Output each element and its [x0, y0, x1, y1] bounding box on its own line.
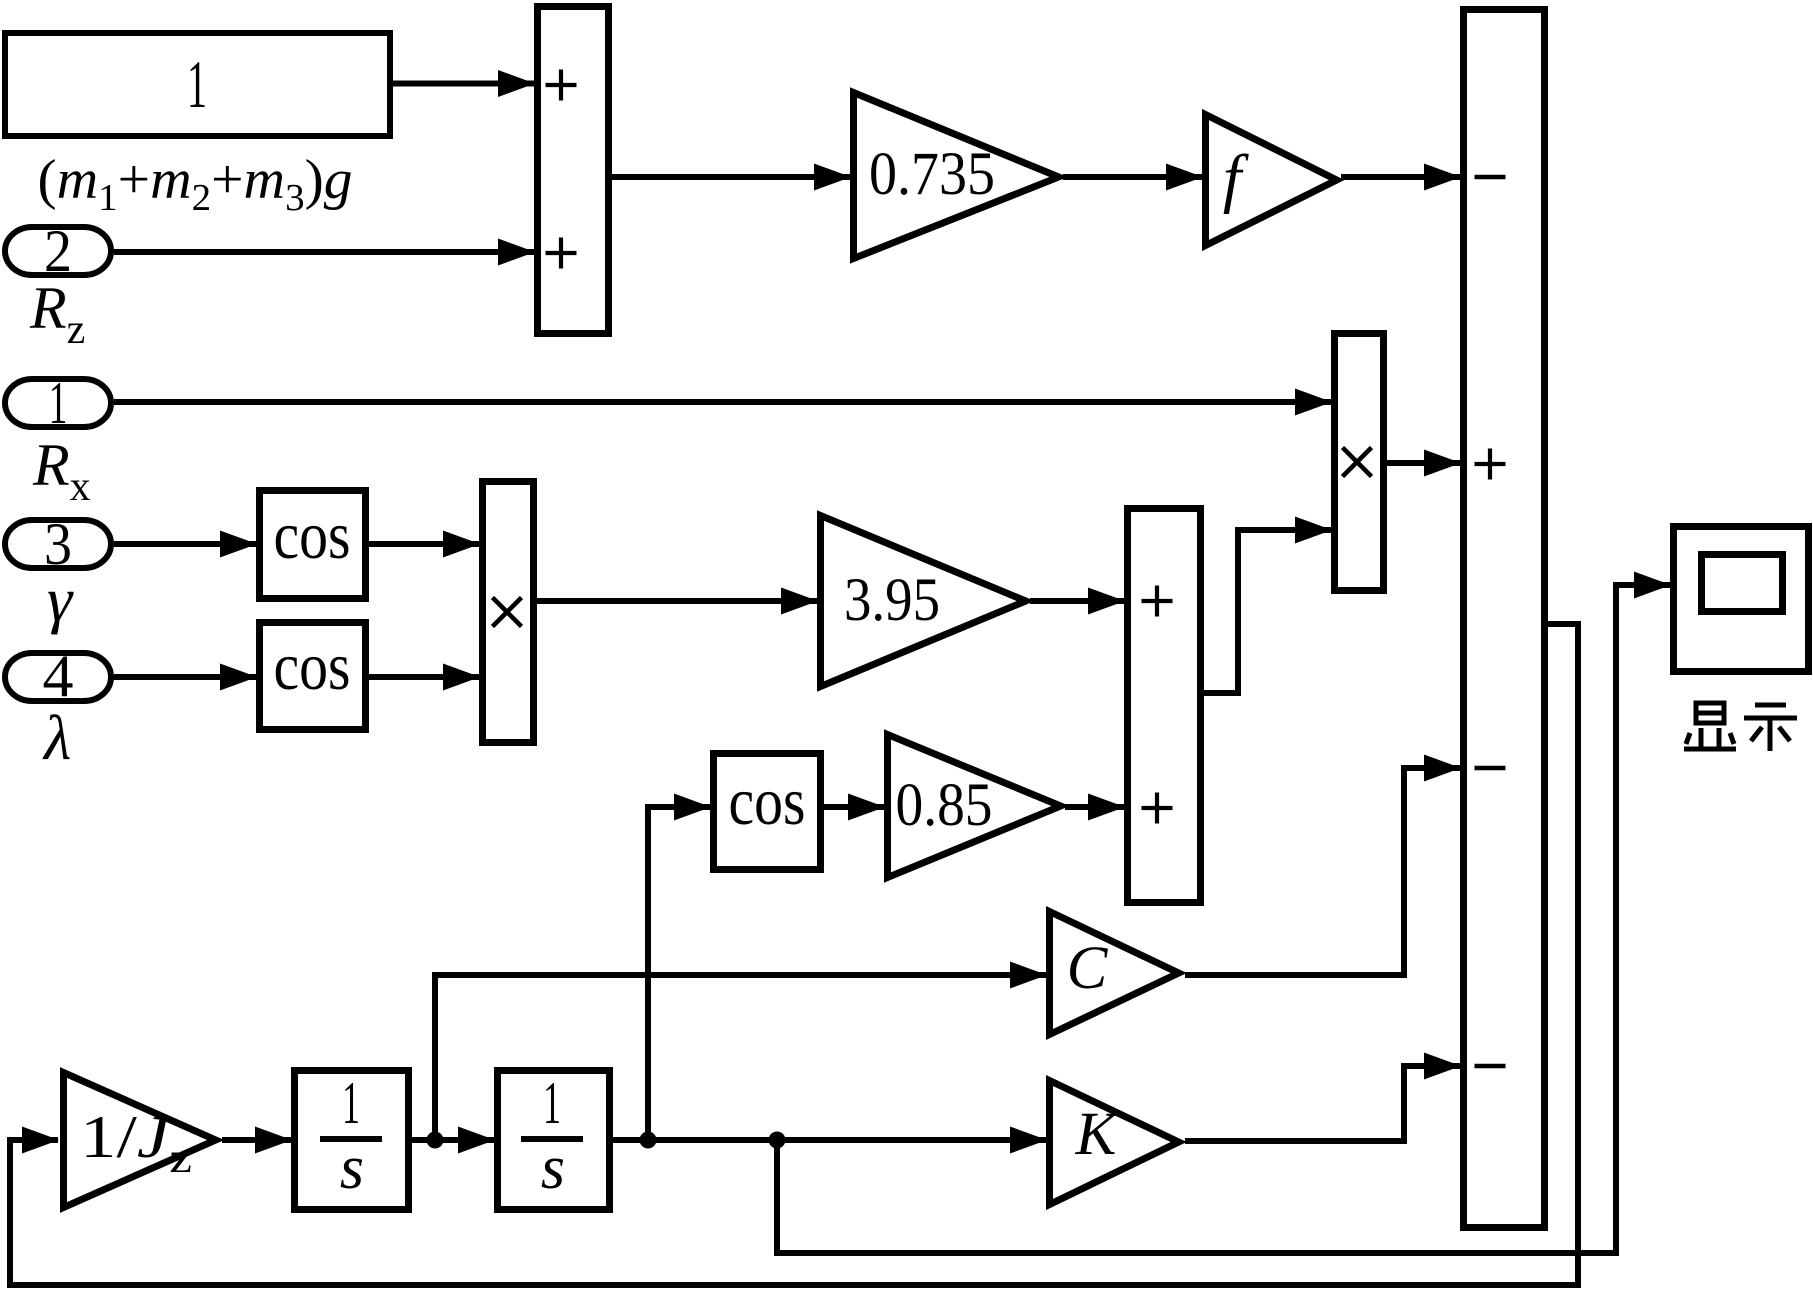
wire 0.85 to S3 plus2	[1065, 804, 1124, 810]
gain f	[1206, 115, 1337, 246]
wire P1 to gain 3.95	[537, 598, 817, 604]
junction after integrator2	[640, 1132, 657, 1149]
cos block 3	[714, 754, 821, 870]
cos block 1	[260, 491, 366, 599]
input port 1	[5, 379, 111, 427]
input port 3	[5, 520, 111, 568]
svg-text:cos: cos	[274, 628, 351, 704]
integrator 2 (1/s)	[498, 1071, 610, 1210]
svg-text:K: K	[1075, 1101, 1120, 1168]
wire display tap to display	[777, 585, 1670, 1253]
wire port1 Rx to P2	[114, 399, 1331, 405]
wire port2 to S1	[114, 249, 534, 255]
gain 0.85	[888, 735, 1061, 878]
wire port4 to cos2	[114, 674, 256, 680]
wire S1 to gain 0.735	[612, 174, 850, 180]
display block	[1674, 527, 1809, 672]
svg-text:1: 1	[342, 1070, 360, 1136]
gain C	[1050, 912, 1179, 1035]
svg-text:γ: γ	[47, 564, 74, 635]
junction display tap	[769, 1132, 786, 1149]
svg-text:1: 1	[49, 370, 68, 436]
wire S2 output feedback to 1/Jz	[10, 624, 1578, 1285]
wire P2 to S2 plus	[1387, 460, 1460, 466]
sum block S2 (main)	[1464, 10, 1545, 1228]
wire constant to S1	[393, 81, 534, 87]
cos block 2	[260, 623, 366, 730]
svg-text:cos: cos	[274, 497, 351, 573]
svg-text:0.735: 0.735	[869, 141, 995, 208]
input port 4	[5, 653, 111, 701]
svg-text:3.95: 3.95	[844, 567, 940, 634]
wire 0.735 to f	[1063, 174, 1202, 180]
wire integrator1 to integrator2	[412, 1137, 494, 1143]
gain 0.735	[854, 93, 1059, 259]
wire 1/Jz to integrator1	[222, 1137, 291, 1143]
svg-text:cos: cos	[729, 763, 806, 839]
wire cos1 to P1	[369, 541, 479, 547]
svg-text:s: s	[340, 1134, 364, 1202]
gain 3.95	[821, 516, 1026, 687]
wire integrator2 to gain K	[613, 1137, 1046, 1143]
sum block S1	[538, 7, 609, 334]
integrator 1 (1/s)	[295, 1071, 409, 1210]
svg-text:0.85: 0.85	[896, 772, 993, 839]
wire K to S2 minus3	[1185, 1066, 1460, 1141]
wire 3.95 to S3 plus1	[1030, 598, 1124, 604]
wire junction2 to cos3	[648, 807, 710, 1140]
gain K	[1050, 1081, 1179, 1205]
svg-text:C: C	[1067, 935, 1109, 1002]
sum block S3	[1128, 509, 1201, 903]
junction after integrator1	[427, 1132, 444, 1149]
input port 2	[5, 227, 111, 275]
svg-text:λ: λ	[42, 703, 71, 773]
wire port3 to cos1	[114, 541, 256, 547]
wire C to S2 minus2	[1185, 768, 1460, 975]
svg-text:1: 1	[543, 1070, 561, 1136]
svg-text:1: 1	[187, 46, 207, 122]
wire f to S2 minus1	[1341, 174, 1460, 180]
wire S3 to P2	[1204, 530, 1331, 693]
gain 1/Jz	[64, 1073, 216, 1208]
svg-text:4: 4	[43, 643, 74, 709]
label xianshi	[1684, 703, 1797, 751]
constant block 1 (m1+m2+m3)g	[5, 33, 390, 136]
wire junction1 to gain C	[435, 975, 1046, 1140]
product block P1	[483, 482, 534, 743]
svg-text:s: s	[541, 1134, 565, 1202]
wire cos2 to P1	[369, 674, 479, 680]
product block P2	[1335, 334, 1384, 591]
wire cos3 to gain 0.85	[824, 804, 884, 810]
